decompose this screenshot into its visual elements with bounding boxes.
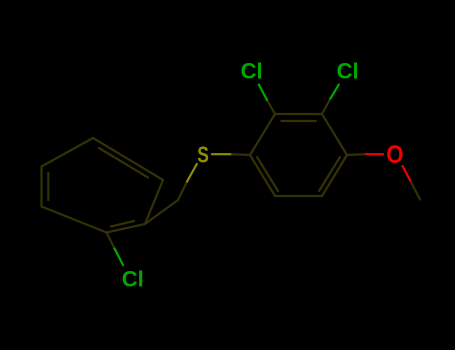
ring B double bond inner line C6'-C1' bbox=[257, 157, 278, 191]
bond C4'-O carbon half bbox=[347, 153, 366, 156]
bond S-C1' carbon half bbox=[232, 153, 250, 156]
bond C3'-Cl carbon half bbox=[322, 99, 331, 115]
ring A edge C5-C6 left vertical bbox=[40, 167, 42, 207]
ring B edge C5'-C6' bottom bbox=[275, 195, 322, 197]
bond CH2-S sulfur half bbox=[187, 164, 197, 182]
bond O-CH3 oxygen half bbox=[403, 166, 412, 182]
ring A double bond inner line C1-C2 bbox=[99, 148, 148, 178]
ring A double bond inner line C3-C4 bbox=[111, 221, 134, 227]
ring B (dichloromethoxyphenyl) edge C1'-C2' bbox=[250, 114, 275, 155]
ring B edge C4'-C5' bbox=[322, 155, 347, 196]
ring B edge C2'-C3' top bbox=[275, 113, 322, 115]
bond C4-Cl chlorine half (ring A) bbox=[115, 249, 124, 266]
ring B edge C6'-C1' bbox=[250, 155, 275, 196]
bond C4'-O oxygen half bbox=[366, 153, 383, 155]
bond C2'-Cl chlorine half bbox=[259, 85, 267, 101]
ring A (2-chlorophenyl) edge C1-C2 top to top-right bbox=[93, 138, 163, 180]
ring A edge C3-C4 bottom bbox=[107, 224, 146, 233]
ring B double bond inner line C2'-C3' bbox=[281, 120, 315, 122]
ring B edge C3'-C4' bbox=[322, 114, 347, 155]
ring A edge C4-C5 bottom-left bbox=[42, 207, 107, 233]
bond O-CH3 carbon half bbox=[411, 182, 420, 200]
ring B double bond inner line C4'-C5' bbox=[319, 157, 340, 191]
ring A edge C6-C1 top-left bbox=[42, 138, 94, 167]
svg-text:Cl: Cl bbox=[241, 59, 263, 84]
bond S-C1' sulfur half bbox=[212, 153, 232, 155]
bond C3'-Cl chlorine half bbox=[331, 85, 339, 99]
svg-text:Cl: Cl bbox=[122, 266, 144, 291]
bond CH2-S carbon half bbox=[178, 182, 187, 200]
ring A double bond inner line C5-C6 bbox=[47, 173, 49, 200]
bond C4-Cl carbon half (ring A) bbox=[107, 233, 115, 249]
svg-text:S: S bbox=[197, 142, 209, 168]
bond C3-CH2 (benzylic) bbox=[145, 200, 178, 224]
svg-text:Cl: Cl bbox=[337, 59, 359, 84]
ring A edge C2-C3 steep right bbox=[145, 180, 163, 224]
svg-text:O: O bbox=[386, 141, 403, 169]
bond C2'-Cl carbon half bbox=[267, 100, 275, 114]
